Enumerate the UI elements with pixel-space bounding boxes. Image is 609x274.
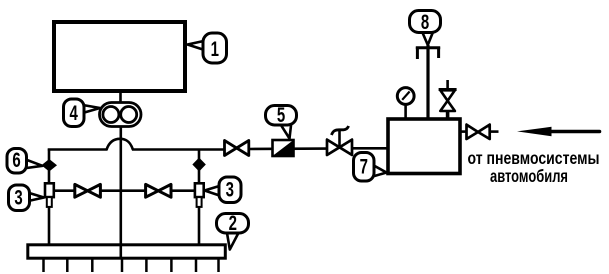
component 3 right: nozzle body (195, 183, 204, 207)
svg-text:8: 8 (421, 9, 429, 33)
wire: right vertical riser (198, 149, 201, 245)
callout label 6 (7, 147, 43, 173)
outlet stubs under manifold (44, 259, 219, 272)
callout label 5 (266, 102, 297, 138)
wire: center vertical inside manifold (120, 244, 123, 258)
inlet valve on tank right side (460, 125, 499, 139)
component 2: distribution manifold (28, 245, 226, 258)
supply arrow from vehicle pneumatic system (517, 127, 600, 136)
callout label 8 (410, 9, 441, 45)
check valve right: filled diamond (193, 159, 204, 171)
callout label 2 (217, 210, 249, 249)
svg-text:3: 3 (226, 177, 234, 201)
component 5: filter (273, 140, 294, 156)
valve: shut-off valve on top pipe (225, 141, 249, 156)
callout label 3 left (9, 185, 45, 211)
svg-text:5: 5 (277, 102, 285, 126)
component 8: coupling head (bar with legs) (416, 47, 440, 59)
svg-text:3: 3 (14, 185, 22, 209)
wire: pipe from valve through filter 5 to cock (249, 147, 327, 150)
callout label 1 (188, 33, 227, 63)
component 1: control unit box (54, 22, 185, 91)
wire: vertical drop from unit 1 to gauge block 4 (119, 91, 122, 103)
svg-text:от пневмосистемы: от пневмосистемы (468, 149, 600, 168)
component 7: air receiver tank (388, 119, 460, 174)
svg-text:автомобиля: автомобиля (490, 167, 568, 186)
component 3 left: nozzle body (45, 183, 54, 207)
wire: top horizontal pipe left segment (48, 148, 108, 151)
wire: center vertical from block 4 down through manifold (120, 126, 123, 257)
wire: top horizontal pipe to valve (132, 148, 224, 151)
pressure gauge on tank (397, 88, 414, 118)
check valve 6 left: filled diamond (43, 160, 56, 171)
safety valve on tank (439, 80, 457, 118)
svg-text:1: 1 (211, 36, 219, 60)
svg-text:6: 6 (12, 147, 20, 171)
callout label 7 (354, 153, 387, 182)
svg-text:7: 7 (360, 154, 368, 178)
callout label 4 (64, 99, 101, 127)
callout label 3 right (205, 177, 242, 203)
wire: left vertical riser (48, 149, 51, 245)
component 4: twin pressure gauge block (100, 103, 142, 127)
wire: hop-over arc where pipe crosses center vertical (107, 139, 134, 150)
wire: pipe from cock to tank 7 (352, 147, 388, 150)
wire: vertical pipe from coupling 8 to tank (426, 45, 429, 118)
valve: left shut-off valve on middle pipe (75, 184, 101, 197)
svg-text:4: 4 (70, 100, 79, 124)
svg-text:2: 2 (229, 210, 237, 234)
component: drain cock with handle (327, 126, 352, 155)
wire: middle horizontal pipe between nozzles 3 (52, 189, 196, 192)
valve: right shut-off valve on middle pipe (146, 184, 171, 197)
